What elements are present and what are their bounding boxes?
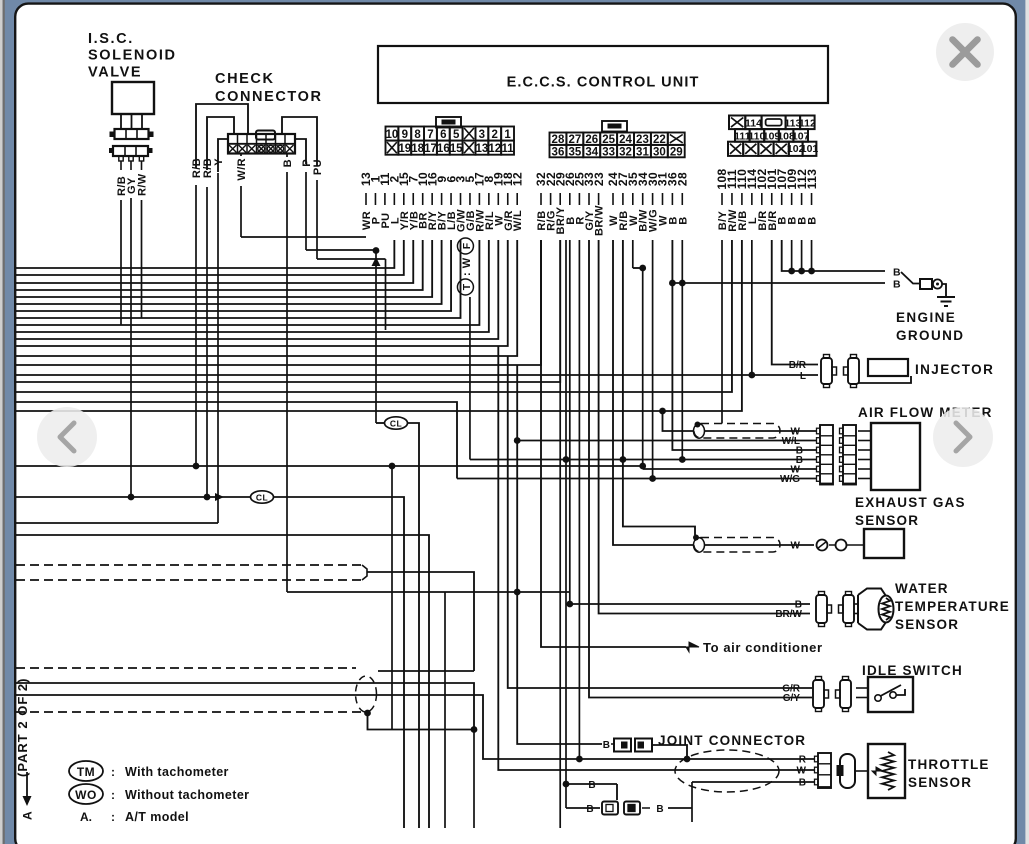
junction bottom B <box>563 781 570 788</box>
ISC wire R/W <box>141 161 143 170</box>
harness elbow to joint bus <box>368 713 475 730</box>
svg-text:10: 10 <box>386 129 399 141</box>
junction R/B2 on CL bus <box>204 494 211 501</box>
svg-text:12: 12 <box>510 172 524 186</box>
bus wire to pin 111 <box>16 240 732 392</box>
idle switch body <box>868 677 913 712</box>
harness wire via joint riser <box>16 683 474 730</box>
svg-text:: W: : W <box>461 257 473 276</box>
long vertical wire pin 2 riser <box>391 466 393 730</box>
exhaust gas sensor body <box>864 529 904 558</box>
bus wire to pin 17 <box>16 240 479 325</box>
close button <box>936 23 994 81</box>
svg-text:SENSOR: SENSOR <box>855 513 919 528</box>
svg-text:B: B <box>586 804 593 815</box>
svg-text:B: B <box>799 778 806 789</box>
svg-text:INJECTOR: INJECTOR <box>915 362 994 377</box>
svg-text:30: 30 <box>653 146 666 158</box>
exhaust gas sensor round connector pair <box>817 540 828 551</box>
harness bracket <box>362 565 367 580</box>
svg-text:SOLENOID: SOLENOID <box>88 48 177 64</box>
air flow meter wire B 1 <box>672 283 816 450</box>
svg-text:B: B <box>603 740 610 751</box>
svg-text:CL: CL <box>256 493 268 503</box>
air flow meter connector strip 2 <box>843 425 856 485</box>
junction on harness loop 2 <box>693 535 699 541</box>
svg-text:18: 18 <box>411 143 424 155</box>
svg-text:33: 33 <box>602 146 615 158</box>
injector coil <box>868 359 908 376</box>
air flow meter stub wires <box>858 430 871 432</box>
svg-text:6: 6 <box>440 129 446 141</box>
svg-text:31: 31 <box>636 146 649 158</box>
joint connector body 1 <box>614 739 631 752</box>
svg-text:W: W <box>797 766 807 777</box>
junction node on wire 1 lower <box>372 257 381 266</box>
svg-text:With tachometer: With tachometer <box>125 765 229 779</box>
svg-text::: : <box>111 765 115 779</box>
svg-text:IDLE SWITCH: IDLE SWITCH <box>862 663 963 678</box>
svg-text:9: 9 <box>402 129 408 141</box>
svg-text:W/G: W/G <box>780 474 800 485</box>
air flow meter wire W 2 <box>643 468 816 470</box>
svg-text::: : <box>111 810 115 824</box>
idle switch wire G/R <box>508 356 812 688</box>
svg-text:15: 15 <box>450 143 463 155</box>
junction W1 riser on y411 <box>659 408 666 415</box>
check connector wire R/B 1 <box>196 104 248 168</box>
ECCS connector block pins 22-36 <box>602 121 627 132</box>
wire 28 vertical <box>681 240 683 283</box>
svg-text:A.: A. <box>80 810 92 824</box>
svg-text:7: 7 <box>427 129 433 141</box>
long vertical riser y592 <box>444 592 446 828</box>
svg-text:W/R: W/R <box>236 158 248 181</box>
svg-text:To air conditioner: To air conditioner <box>703 640 823 655</box>
svg-text:B/R: B/R <box>789 360 807 371</box>
air flow meter wire W/L <box>517 440 816 442</box>
wire B riser <box>691 782 693 822</box>
svg-text:VALVE: VALVE <box>88 65 142 81</box>
wire 25 vertical <box>578 240 580 759</box>
wire 114 vertical <box>751 240 753 375</box>
svg-text:112: 112 <box>799 117 816 129</box>
bus wire to pin 18 <box>16 240 508 346</box>
svg-text:13: 13 <box>475 143 488 155</box>
svg-text:B: B <box>893 267 901 279</box>
svg-text:113: 113 <box>805 169 819 190</box>
svg-text:107: 107 <box>792 130 810 142</box>
exhaust bundle feed from wire 27 <box>623 240 695 535</box>
svg-text:Without tachometer: Without tachometer <box>125 788 249 802</box>
bottom B row 2 <box>566 807 600 809</box>
svg-text:32: 32 <box>619 146 632 158</box>
svg-text:B: B <box>807 216 819 224</box>
idle switch wire G/Y <box>589 240 812 698</box>
svg-text:29: 29 <box>670 146 683 158</box>
svg-text:17: 17 <box>424 143 437 155</box>
harness solid after loop <box>378 670 474 672</box>
svg-text:A: A <box>21 811 35 820</box>
bus wire y535 <box>16 535 429 828</box>
svg-text:CONNECTOR: CONNECTOR <box>215 89 323 105</box>
wire pin 11 vertical <box>385 259 387 330</box>
svg-text:SENSOR: SENSOR <box>908 775 972 790</box>
junction dashed end <box>364 710 371 717</box>
bottom B tail <box>642 807 650 809</box>
svg-text:W/L: W/L <box>512 210 524 231</box>
svg-text:G/Y: G/Y <box>783 693 801 704</box>
svg-text:TM: TM <box>77 765 95 779</box>
junction ISC GY on CL bus <box>128 494 135 501</box>
svg-text:B: B <box>282 159 294 167</box>
injector wire L bus <box>16 374 818 376</box>
check connector wire B <box>286 154 288 158</box>
water temp wire B <box>287 591 570 593</box>
svg-text:L: L <box>800 371 806 382</box>
air flow meter harness dashed bundle <box>694 424 780 439</box>
dashed harness wire 4 <box>16 711 364 713</box>
svg-text:SENSOR: SENSOR <box>895 617 959 632</box>
svg-text:36: 36 <box>552 146 565 158</box>
ISC solenoid valve body <box>112 82 154 114</box>
svg-text:Y: Y <box>213 158 225 166</box>
svg-text:B: B <box>677 216 689 224</box>
svg-text::: : <box>111 788 115 802</box>
exhaust gas sensor wire W <box>613 240 694 545</box>
bus wire to pin 8 <box>16 240 489 332</box>
svg-text:23: 23 <box>592 172 606 186</box>
injector connector pair <box>821 358 832 384</box>
junction on harness loop 1 <box>695 422 701 428</box>
dashed harness wire 3 <box>16 667 356 669</box>
svg-text:F: F <box>461 242 473 249</box>
svg-text:1: 1 <box>504 129 511 141</box>
bottom B row 1 <box>566 783 617 785</box>
ISC valve connector half 2 <box>113 146 148 156</box>
svg-text:I.S.C.: I.S.C. <box>88 31 134 47</box>
bus wire to pin 29 <box>16 240 560 382</box>
arrow mark on CL bus <box>215 493 224 501</box>
svg-text:ENGINE: ENGINE <box>896 310 956 325</box>
bus wire to pin 16 <box>16 240 432 297</box>
svg-text:101: 101 <box>801 143 819 155</box>
check connector body <box>228 134 295 154</box>
harness loop ellipse <box>356 676 377 712</box>
svg-text:3: 3 <box>479 129 485 141</box>
note circled T W circled F on wire 5 <box>457 238 473 295</box>
check connector wire P <box>295 139 306 164</box>
air flow meter wire B 2 <box>470 459 816 461</box>
check connector wire Y <box>218 139 228 172</box>
arrow A <box>26 772 28 799</box>
harness wire to throttle R <box>16 695 814 759</box>
svg-text:(PART 2 OF 2): (PART 2 OF 2) <box>15 678 30 777</box>
svg-text:34: 34 <box>585 146 598 158</box>
bus wire to pin 9 <box>16 240 442 304</box>
joint connector tail wire <box>652 745 687 759</box>
bottom B connector pair <box>602 802 618 815</box>
water temp wire BR/W <box>599 240 810 614</box>
svg-text:GROUND: GROUND <box>896 328 964 343</box>
bottom B wire vertical <box>565 240 567 808</box>
throttle connector 1 <box>818 753 831 788</box>
check connector wire W/R <box>240 154 242 157</box>
water temp connector pair <box>816 595 827 623</box>
junction wire 25 on R <box>576 756 583 763</box>
long vertical wire pin 5 <box>469 297 471 460</box>
wire 113 vertical <box>811 240 813 271</box>
svg-text:B: B <box>893 279 901 291</box>
joint connector wire B <box>517 365 602 744</box>
air flow meter wire W 1 <box>663 411 695 431</box>
svg-text:WO: WO <box>75 788 97 802</box>
joint riser continues south <box>473 730 475 829</box>
wire to air conditioner <box>541 240 686 647</box>
svg-text:35: 35 <box>568 146 581 158</box>
junction joint riser <box>471 726 478 733</box>
svg-text:114: 114 <box>745 117 762 129</box>
bus wire y523 <box>16 522 218 524</box>
junction node on wire 1 <box>373 247 380 254</box>
svg-text:W: W <box>791 541 801 552</box>
svg-text:T: T <box>461 283 473 290</box>
injector wire B/R <box>772 240 818 365</box>
svg-text:B: B <box>656 804 663 815</box>
wire 109 vertical <box>791 240 793 271</box>
bus wire to pin 7 <box>16 240 413 283</box>
bus wire to pin 3 <box>16 240 461 318</box>
air flow meter connector strip 1 <box>820 425 833 485</box>
bus wire to pin 15 <box>16 240 404 275</box>
wire pin 1 vertical <box>375 250 377 423</box>
check connector wire R/B 2 <box>207 117 234 170</box>
svg-text:5: 5 <box>453 129 460 141</box>
bus wire y466 with junctions <box>16 465 643 467</box>
long vertical wire pin 29 <box>559 240 561 828</box>
svg-text:B: B <box>588 780 595 791</box>
harness wire to throttle W from pin 19 <box>498 346 814 770</box>
svg-text:BR/W: BR/W <box>594 205 606 236</box>
bus wire to pin 2 <box>16 240 394 268</box>
air flow meter wire W/G <box>457 478 816 480</box>
bus wire y411 to pin 110 <box>16 240 742 411</box>
engine ground bus wire B top <box>782 240 885 271</box>
throttle sensor body <box>868 744 905 798</box>
throttle wire B <box>692 781 814 783</box>
dashed harness wire 1 <box>16 564 362 566</box>
check connector wire PU <box>282 117 317 166</box>
water temperature sensor body <box>854 603 858 605</box>
left nav button <box>37 407 97 467</box>
legend WO without tachometer <box>69 784 103 804</box>
bus wire to pin 10 <box>16 240 423 290</box>
svg-text:CL: CL <box>390 419 402 429</box>
ISC wire R/B <box>120 161 122 170</box>
ground symbol <box>942 284 946 297</box>
ISC valve connector half 1 <box>115 129 149 139</box>
bus wire to pin 19 <box>16 240 498 339</box>
svg-text:PU: PU <box>312 159 324 175</box>
svg-text:THROTTLE: THROTTLE <box>908 757 990 772</box>
svg-text:28: 28 <box>676 172 690 186</box>
ECCS connector block pins 101-114 <box>729 116 745 130</box>
right nav button <box>933 407 993 467</box>
ISC wire GY <box>130 161 132 170</box>
ECCS control unit box U1 <box>378 46 828 103</box>
engine ground bus wire B bottom <box>672 240 885 283</box>
svg-text:12: 12 <box>488 143 501 155</box>
wire 26 vertical <box>569 240 571 604</box>
idle switch connector pair <box>813 680 824 708</box>
legend TM with tachometer <box>69 761 103 781</box>
joint connector body 2 <box>635 739 652 752</box>
svg-text:R: R <box>799 755 807 766</box>
wire 34 vertical <box>642 268 644 469</box>
connector CL 1 <box>376 422 385 424</box>
svg-text:16: 16 <box>437 143 450 155</box>
svg-text:WATER: WATER <box>895 581 949 596</box>
wire 108 vertical into harness <box>721 240 723 424</box>
throttle connector 2 <box>840 754 855 788</box>
svg-text:A/T model: A/T model <box>125 810 189 824</box>
svg-text:TEMPERATURE: TEMPERATURE <box>895 599 1010 614</box>
svg-text:19: 19 <box>398 143 411 155</box>
svg-text:2: 2 <box>492 129 498 141</box>
svg-text:E.C.C.S. CONTROL UNIT: E.C.C.S. CONTROL UNIT <box>507 75 700 91</box>
bus wire to pin 12 <box>16 240 517 356</box>
bus wire to pin 6 <box>16 240 451 311</box>
exhaust harness dashed bundle <box>694 538 780 553</box>
bus wire y402 riser to W/G <box>16 402 457 479</box>
svg-text:R/W: R/W <box>137 173 149 196</box>
air flow meter body <box>871 423 920 490</box>
wire 112 vertical <box>801 240 803 271</box>
engine ground terminal <box>901 272 919 284</box>
svg-text:EXHAUST GAS: EXHAUST GAS <box>855 495 966 510</box>
dashed harness wire 2 <box>16 579 362 581</box>
svg-text:11: 11 <box>501 143 514 155</box>
throttle bundle dashed ellipse <box>675 750 779 792</box>
svg-text:8: 8 <box>414 129 421 141</box>
ECCS connector block pins 1-19 <box>436 117 461 128</box>
bus wire to pin 32 <box>16 240 541 365</box>
wire 35 to 34 merge <box>632 240 634 268</box>
svg-text:BR/W: BR/W <box>775 609 802 620</box>
connector CL 2 <box>16 496 251 498</box>
svg-text:CHECK: CHECK <box>215 71 275 87</box>
